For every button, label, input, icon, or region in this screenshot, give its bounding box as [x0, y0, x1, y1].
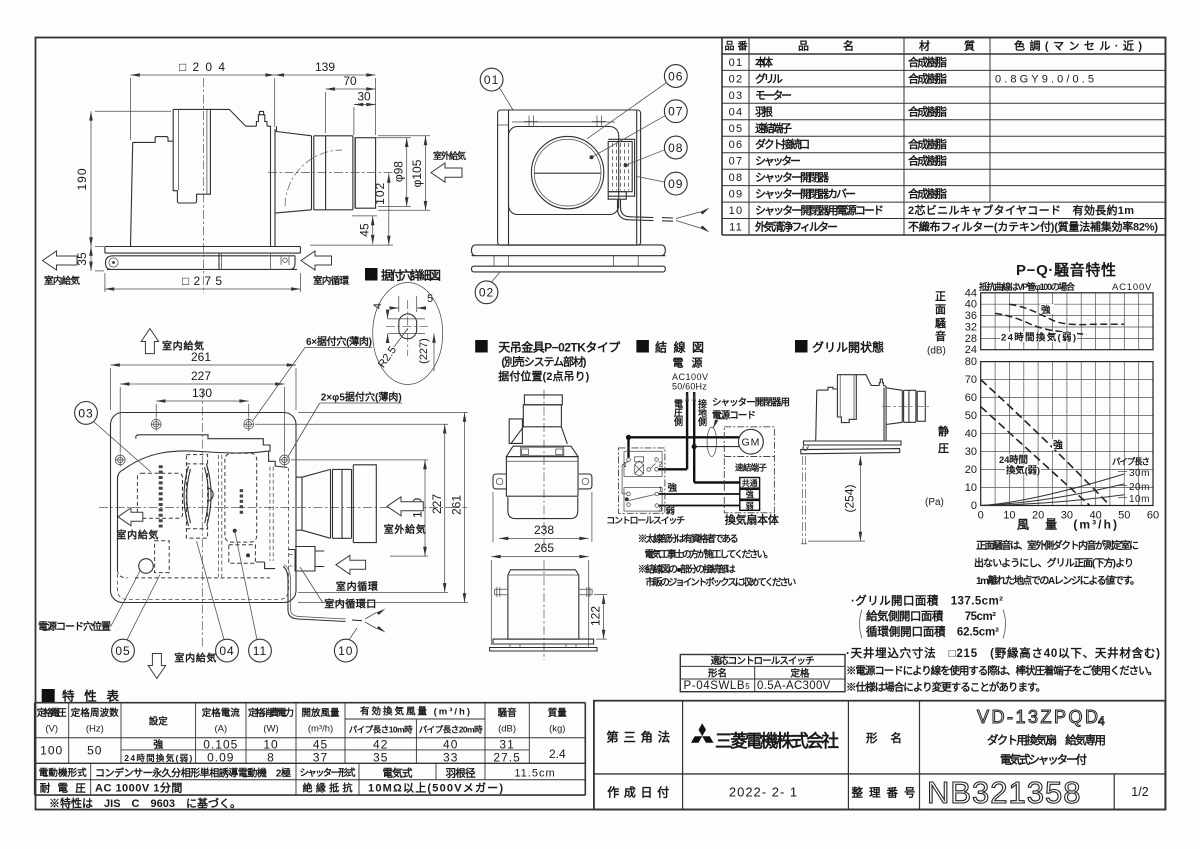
- callout 08: [664, 136, 687, 159]
- svg-text:32: 32: [965, 322, 977, 334]
- mounting hole top-left: [115, 418, 290, 467]
- curve label strong: [1040, 304, 1054, 314]
- left ear with hole: [493, 474, 506, 489]
- svg-text:シャッター開閉器用: シャッター開閉器用: [712, 397, 790, 409]
- svg-text:※仕様は場合により変更することがあります。: ※仕様は場合により変更することがあります。: [846, 681, 1046, 694]
- callout 11: [249, 639, 272, 662]
- dim 4: [387, 311, 389, 319]
- svg-text:シャッター: シャッター: [755, 155, 801, 168]
- callout 09: [664, 172, 687, 195]
- svg-text:(A): (A): [214, 724, 227, 735]
- svg-text:(m³/h): (m³/h): [308, 724, 333, 735]
- svg-text:(V): (V): [45, 724, 58, 735]
- svg-text:42: 42: [373, 738, 388, 752]
- dim line 70: [326, 88, 376, 90]
- svg-text:騒: 騒: [935, 317, 947, 330]
- PQ y labels: [965, 356, 977, 512]
- svg-text:三菱電機株式会社: 三菱電機株式会社: [715, 731, 840, 751]
- wire: junction to GM (upper cord wire): [629, 436, 740, 438]
- svg-text:10: 10: [729, 205, 744, 217]
- dim 238: [491, 492, 592, 648]
- svg-text:37: 37: [313, 751, 328, 765]
- curve label 24h ventilation weak: [1000, 332, 1077, 342]
- svg-text:10: 10: [263, 738, 278, 752]
- bracket lower drawing (end elevation): [490, 560, 607, 660]
- dim phi105: [425, 136, 427, 211]
- dim line 275: [105, 288, 301, 290]
- svg-text:4: 4: [372, 303, 384, 309]
- motor shaft dotted strip: [159, 465, 163, 527]
- duct bell mouth: [275, 126, 314, 213]
- dim line 204: [75, 60, 376, 292]
- svg-text:※電源コードにより線を使用する際は、棒状圧着端子をご使用くだ: ※電源コードにより線を使用する際は、棒状圧着端子をご使用ください。: [846, 664, 1158, 677]
- circulation port assembly (right): [289, 547, 325, 572]
- fan scroll dashed body: [186, 455, 207, 538]
- horizontal centerline: [99, 507, 467, 509]
- mounting hole detail drawing: [372, 283, 443, 385]
- svg-text:有効換気風量 (m³/h): 有効換気風量 (m³/h): [360, 706, 470, 718]
- terminal 2 and arm: [647, 468, 651, 472]
- svg-text:(W): (W): [263, 724, 278, 735]
- svg-text:07: 07: [668, 105, 683, 119]
- PQ graph grid: [981, 362, 1153, 506]
- svg-text:NB321358: NB321358: [927, 775, 1082, 810]
- svg-text:2×φ5据付穴(薄肉): 2×φ5据付穴(薄肉): [321, 391, 402, 404]
- svg-text:P-04SWLB5: P-04SWLB5: [684, 680, 751, 692]
- svg-text:06: 06: [668, 69, 683, 83]
- motor block 03 (dashed): [137, 473, 182, 518]
- shutter opener box 08: [608, 142, 632, 192]
- svg-text:室内給気: 室内給気: [162, 340, 204, 353]
- bracket upper drawing (side elevation): [491, 395, 592, 648]
- callout 02: [475, 281, 498, 304]
- big left paren: [860, 610, 863, 639]
- slot hole: [399, 314, 417, 339]
- mounting hole right (2xphi5): [280, 455, 290, 465]
- svg-text:35: 35: [373, 751, 388, 765]
- PQ curve strong (dashed): [981, 380, 1110, 506]
- svg-text:φ98: φ98: [392, 161, 406, 182]
- dim 265: [491, 556, 588, 558]
- svg-text:28: 28: [965, 333, 977, 345]
- curve label strong: [1052, 439, 1064, 450]
- svg-text:電気工事士の方が施工してください。: 電気工事士の方が施工してください。: [645, 549, 774, 561]
- svg-text:50: 50: [965, 410, 977, 422]
- svg-text:定格消費電力: 定格消費電力: [247, 707, 294, 719]
- right ear with hole: [579, 474, 592, 489]
- svg-text:シャッター開閉器カバー: シャッター開閉器カバー: [755, 188, 856, 201]
- svg-text:コンデンサー永久分相形単相誘導電動機 2極: コンデンサー永久分相形単相誘導電動機 2極: [95, 767, 291, 780]
- grille frame plate: [472, 245, 666, 256]
- title block: [594, 701, 1165, 810]
- callout 05: [112, 639, 135, 662]
- svg-text:50: 50: [87, 744, 102, 758]
- y axis label static pressure (Pa): [925, 424, 949, 508]
- pipe resistance curve 10m: [981, 495, 1125, 506]
- svg-text:45: 45: [358, 223, 372, 237]
- svg-text:ダクト用換気扇 給気専用: ダクト用換気扇 給気専用: [987, 733, 1106, 747]
- svg-text:電気式シャッター付: 電気式シャッター付: [1000, 753, 1088, 767]
- svg-text:質量: 質量: [548, 707, 567, 719]
- svg-text:騒音: 騒音: [498, 707, 517, 719]
- svg-text:190: 190: [75, 167, 89, 190]
- svg-text:電源コード: 電源コード: [712, 410, 756, 422]
- fan body (small side view): [816, 387, 838, 441]
- svg-text:4: 4: [1098, 714, 1105, 728]
- section header: grille open state: [795, 340, 884, 355]
- rear view drawing (top middle): [472, 65, 710, 304]
- duct pipe: [314, 136, 355, 210]
- svg-text:10: 10: [1003, 510, 1015, 522]
- scroll volute arcs: [184, 466, 189, 526]
- svg-text:30: 30: [965, 446, 977, 458]
- callout 01: [480, 68, 503, 91]
- side tab plate: [509, 419, 522, 444]
- dim line 35: [90, 247, 92, 271]
- fan body outer square: [498, 110, 641, 245]
- duct centerline: [268, 172, 394, 174]
- svg-text:36: 36: [965, 310, 977, 322]
- svg-text:形 名: 形 名: [866, 731, 902, 745]
- callout 04: [216, 639, 239, 662]
- svg-text:合成樹脂: 合成樹脂: [908, 55, 947, 69]
- svg-text:循環側開口面積 62.5cm²: 循環側開口面積 62.5cm²: [865, 625, 999, 639]
- svg-text:※太線部分は有資格者である: ※太線部分は有資格者である: [638, 533, 739, 545]
- body top right slope and bolt 01: [210, 109, 275, 246]
- svg-text:09: 09: [729, 189, 744, 201]
- shutter blade edge 07: [535, 172, 601, 174]
- dim line 139: [275, 74, 376, 76]
- svg-text:03: 03: [78, 406, 93, 420]
- airflow arrow indoor supply (top): [141, 329, 158, 354]
- svg-text:130: 130: [192, 386, 212, 400]
- PQ curve 24h weak (dashed): [981, 407, 1090, 506]
- svg-text:0.105: 0.105: [203, 738, 238, 752]
- svg-text:227: 227: [430, 494, 444, 514]
- svg-text:40: 40: [965, 428, 977, 440]
- mounting tabs on top: [524, 116, 606, 127]
- grille dashed outline: [118, 468, 289, 600]
- link wire upper to lower switch: [622, 461, 628, 493]
- svg-text:電源コード穴位置: 電源コード穴位置: [38, 620, 111, 633]
- section header: wiring diagram: [636, 340, 704, 355]
- dim 227 top: [120, 383, 284, 385]
- svg-text:6×据付穴(薄肉): 6×据付穴(薄肉): [306, 335, 372, 348]
- svg-text:出ないようにし、グリル正面(下方)より: 出ないようにし、グリル正面(下方)より: [974, 557, 1134, 570]
- svg-text:100: 100: [40, 744, 63, 758]
- grille lower plate 02: [472, 266, 666, 272]
- filter frame 11 (dashed): [229, 545, 256, 564]
- svg-text:電動機形式: 電動機形式: [39, 767, 87, 779]
- dim 227 right: [444, 424, 446, 592]
- grille of bracket unit: [508, 497, 578, 518]
- svg-text:01: 01: [729, 57, 744, 69]
- power cord: [618, 199, 654, 220]
- svg-text:80: 80: [965, 356, 977, 368]
- svg-text:換気扇本体: 換気扇本体: [725, 513, 780, 527]
- svg-text:圧: 圧: [938, 442, 949, 455]
- svg-text:5: 5: [427, 293, 433, 305]
- callout 07: [664, 100, 687, 123]
- svg-text:0.5A-AC300V: 0.5A-AC300V: [757, 680, 831, 692]
- bell interior dash-dot arc: [285, 150, 342, 207]
- svg-text:20: 20: [965, 464, 977, 476]
- small duct: [886, 388, 925, 425]
- bottom flange plates: [493, 639, 594, 644]
- svg-text:24: 24: [965, 344, 977, 356]
- noise graph grid: [981, 293, 1153, 350]
- svg-text:合成樹脂: 合成樹脂: [908, 71, 947, 85]
- svg-text:面: 面: [935, 303, 946, 316]
- svg-text:139: 139: [315, 60, 335, 74]
- airflow arrow indoor supply (bottom): [148, 654, 165, 679]
- y axis label front noise (dB): [927, 290, 947, 357]
- svg-text:05: 05: [729, 123, 744, 135]
- svg-text:1: 1: [659, 487, 663, 494]
- big right paren: [1003, 610, 1006, 639]
- svg-text:電気式: 電気式: [383, 767, 414, 780]
- svg-text:正面騒音は、室外側ダクト内音が測定室に: 正面騒音は、室外側ダクト内音が測定室に: [976, 539, 1139, 552]
- dial symbol: [635, 457, 644, 462]
- svg-text:122: 122: [589, 606, 603, 626]
- duct end cap (outlet): [355, 138, 375, 209]
- svg-text:(Pa): (Pa): [925, 497, 944, 508]
- svg-text:(254): (254): [843, 484, 857, 512]
- body moulding wave contour: [123, 451, 288, 470]
- svg-text:天吊金具P−02TKタイプ: 天吊金具P−02TKタイプ: [498, 340, 621, 355]
- PQ x labels: [978, 510, 1159, 522]
- svg-text:(dB): (dB): [498, 724, 516, 735]
- svg-text:VD-13ZPQD: VD-13ZPQD: [977, 707, 1101, 727]
- dim (254): [808, 456, 865, 541]
- svg-text:11.5cm: 11.5cm: [514, 768, 555, 780]
- detail boundary ellipse: [373, 283, 443, 385]
- svg-text:40: 40: [443, 738, 458, 752]
- mains wire live side (thick, up arrow): [686, 392, 688, 469]
- body box: [508, 570, 579, 639]
- flange plate: [105, 247, 301, 254]
- svg-text:モーター: モーター: [755, 89, 792, 102]
- svg-text:45: 45: [313, 738, 328, 752]
- svg-text:70: 70: [343, 74, 357, 88]
- svg-text:265: 265: [534, 541, 554, 555]
- dim (227) reference: [433, 334, 435, 372]
- body left edge: [118, 470, 124, 570]
- inner casing rounded square: [509, 127, 619, 215]
- svg-text:品 名: 品 名: [798, 39, 854, 53]
- svg-text:(227): (227): [418, 338, 430, 364]
- svg-text:60: 60: [1147, 510, 1159, 522]
- svg-text:定格周波数: 定格周波数: [70, 707, 119, 719]
- terminal box weak: [740, 500, 760, 510]
- svg-text:室外給気: 室外給気: [433, 150, 466, 161]
- pipe resistance curve 30m: [981, 474, 1125, 506]
- svg-text:20m: 20m: [1129, 482, 1150, 493]
- svg-text:シャッター開閉器用電源コード: シャッター開閉器用電源コード: [755, 203, 884, 217]
- top (plan) view drawing (middle left): [38, 329, 468, 679]
- svg-text:10m: 10m: [1129, 494, 1150, 505]
- control switch dashed enclosure: [619, 448, 665, 513]
- bolt on top: [256, 111, 267, 126]
- svg-text:市販のジョイントボックスに収めてください: 市販のジョイントボックスに収めてください: [645, 577, 796, 589]
- junction dot on live wire: [626, 435, 631, 440]
- cord coil ellipse: [707, 427, 716, 456]
- dim 122: [589, 595, 608, 640]
- section header: mounting hole detail: [365, 268, 441, 283]
- bracket main body: [506, 457, 578, 497]
- svg-text:0.09: 0.09: [207, 751, 234, 765]
- body bottom right notch: [256, 562, 275, 569]
- dim line 190: [90, 111, 92, 246]
- svg-text:44: 44: [965, 287, 977, 299]
- cord fork wire ends: [676, 212, 700, 228]
- shutter plate 04 area (dashed): [225, 453, 257, 542]
- svg-text:27.5: 27.5: [493, 751, 520, 765]
- airflow arrow indoor supply (left): [118, 508, 143, 526]
- svg-text:音: 音: [935, 329, 946, 343]
- svg-text:33: 33: [443, 751, 458, 765]
- svg-text:φ105: φ105: [410, 159, 424, 187]
- body casing top edge with step: [136, 435, 270, 452]
- svg-text:3: 3: [659, 507, 663, 514]
- noise curve strong (dashed): [1009, 304, 1124, 324]
- svg-text:05: 05: [115, 644, 130, 658]
- junction dot on earth wire: [692, 444, 697, 449]
- svg-text:合成樹脂: 合成樹脂: [908, 104, 947, 118]
- svg-text:共通: 共通: [742, 478, 758, 488]
- svg-text:238: 238: [534, 523, 554, 537]
- duct stub: [524, 395, 562, 405]
- svg-text:シャッター形式: シャッター形式: [300, 767, 356, 779]
- svg-text:パイプ長さ20m時: パイプ長さ20m時: [419, 725, 483, 735]
- hinge hook: [803, 445, 809, 451]
- svg-text:強: 強: [1041, 304, 1051, 316]
- svg-text:(kg): (kg): [549, 724, 565, 735]
- svg-text:P−Q·騒音特性: P−Q·騒音特性: [1016, 261, 1116, 279]
- svg-text:外気清浄フィルター: 外気清浄フィルター: [754, 220, 838, 234]
- svg-text:合成樹脂: 合成樹脂: [908, 187, 947, 201]
- svg-text:AC100V: AC100V: [672, 372, 709, 382]
- dim 102: [388, 174, 390, 246]
- side view drawing (top left): [43, 60, 467, 293]
- svg-text:速結端子: 速結端子: [735, 463, 767, 473]
- svg-text:(Hz): (Hz): [86, 724, 104, 735]
- svg-text:227: 227: [191, 369, 211, 383]
- noise curve 24h weak (dashed): [995, 313, 1087, 334]
- svg-text:定格: 定格: [790, 668, 810, 680]
- svg-text:1m離れた地点でのAレンジによる値です。: 1m離れた地点でのAレンジによる値です。: [976, 574, 1140, 587]
- pipe resistance curve 20m: [981, 484, 1125, 506]
- svg-text:10MΩ以上(500Vメガー): 10MΩ以上(500Vメガー): [368, 781, 503, 795]
- svg-text:06: 06: [729, 139, 744, 151]
- dim 261 top: [111, 364, 297, 366]
- terminal box common: [740, 478, 760, 489]
- wire: earth junction to GM (lower cord wire): [694, 446, 739, 448]
- svg-text:抵抗曲線はVP管φ100の場合: 抵抗曲線はVP管φ100の場合: [979, 281, 1076, 292]
- svg-text:強: 強: [746, 489, 754, 499]
- svg-text:2芯ビニルキャブタイヤコード 有効長約1m: 2芯ビニルキャブタイヤコード 有効長約1m: [908, 203, 1134, 217]
- terminal box 05 (dashed): [155, 541, 170, 573]
- svg-text:羽根径: 羽根径: [446, 767, 477, 780]
- svg-text:静: 静: [938, 424, 949, 438]
- svg-text:50/60Hz: 50/60Hz: [672, 382, 707, 392]
- svg-text:室内循環口: 室内循環口: [324, 598, 376, 611]
- body bottom dashed: [118, 570, 270, 578]
- callout 10: [334, 639, 357, 662]
- wire: earth to common terminal: [694, 481, 740, 483]
- terminal 1: [627, 458, 631, 462]
- dim 261 right: [464, 413, 466, 603]
- inner duct housing box: [173, 109, 210, 203]
- svg-text:据付穴詳細図: 据付穴詳細図: [381, 268, 441, 283]
- svg-text:コントロールスイッチ: コントロールスイッチ: [606, 516, 685, 526]
- dim 130 right: [424, 460, 426, 556]
- dim line 30: [354, 104, 376, 106]
- svg-text:50: 50: [1118, 510, 1130, 522]
- shutter opener cover plate outline: [608, 139, 634, 196]
- parts list table (top right): [722, 38, 1166, 236]
- svg-text:24時間: 24時間: [999, 454, 1028, 466]
- svg-text:羽根: 羽根: [755, 104, 774, 118]
- svg-text:0: 0: [978, 510, 984, 522]
- svg-text:(別売システム部材): (別売システム部材): [501, 355, 586, 369]
- svg-text:本体: 本体: [755, 55, 774, 69]
- svg-text:定格電流: 定格電流: [201, 707, 240, 719]
- dim phi98: [406, 138, 408, 207]
- svg-text:電 源: 電 源: [673, 356, 703, 370]
- svg-text:30: 30: [357, 90, 371, 104]
- svg-text:パイプ長さ: パイプ長さ: [1112, 457, 1150, 467]
- svg-text:07: 07: [729, 156, 744, 168]
- svg-text:01: 01: [484, 73, 499, 87]
- svg-text:設定: 設定: [149, 716, 168, 728]
- svg-text:強: 強: [1053, 439, 1063, 452]
- svg-text:換気(弱): 換気(弱): [1006, 465, 1040, 477]
- svg-text:·グリル開口面積 137.5cm²: ·グリル開口面積 137.5cm²: [851, 594, 1003, 608]
- svg-text:AC100V: AC100V: [1112, 282, 1152, 293]
- svg-text:09: 09: [668, 177, 683, 191]
- svg-text:不織布フィルター(カテキン付)(質量法補集効率82%): 不織布フィルター(カテキン付)(質量法補集効率82%): [908, 220, 1158, 234]
- callout 03: [75, 402, 98, 425]
- lower switch box: [624, 488, 662, 512]
- svg-text:合成樹脂: 合成樹脂: [908, 154, 947, 168]
- svg-text:強: 強: [153, 738, 163, 751]
- wire: junction down to switch terminal 1: [627, 437, 629, 457]
- grille open state drawing: [801, 375, 929, 544]
- svg-text:材 質: 材 質: [919, 39, 975, 53]
- svg-text:10: 10: [965, 482, 977, 494]
- vertical centerline: [201, 390, 203, 648]
- svg-text:60: 60: [965, 392, 977, 404]
- wire: switch to strong terminal: [659, 493, 740, 495]
- svg-text:適応コントロールスイッチ: 適応コントロールスイッチ: [711, 655, 815, 667]
- svg-text:03: 03: [729, 90, 744, 102]
- airflow arrow outdoor supply (right): [387, 497, 423, 516]
- dim 45: [310, 136, 430, 245]
- fan body outline: [131, 137, 174, 247]
- svg-text:8: 8: [267, 751, 275, 765]
- grille right clip: [281, 256, 289, 265]
- svg-text:(dB): (dB): [927, 346, 946, 357]
- applicable control switch table: [680, 655, 845, 693]
- svg-text:結 線 図: 結 線 図: [655, 340, 704, 355]
- shutter opener cover 09: [608, 192, 626, 200]
- wire: switch terminal 2 to live mains: [658, 468, 687, 470]
- svg-text:正: 正: [935, 290, 946, 303]
- svg-text:室内給気: 室内給気: [44, 275, 80, 287]
- fan body dashed enclosure: [724, 427, 774, 513]
- svg-text:1/2: 1/2: [1131, 785, 1148, 799]
